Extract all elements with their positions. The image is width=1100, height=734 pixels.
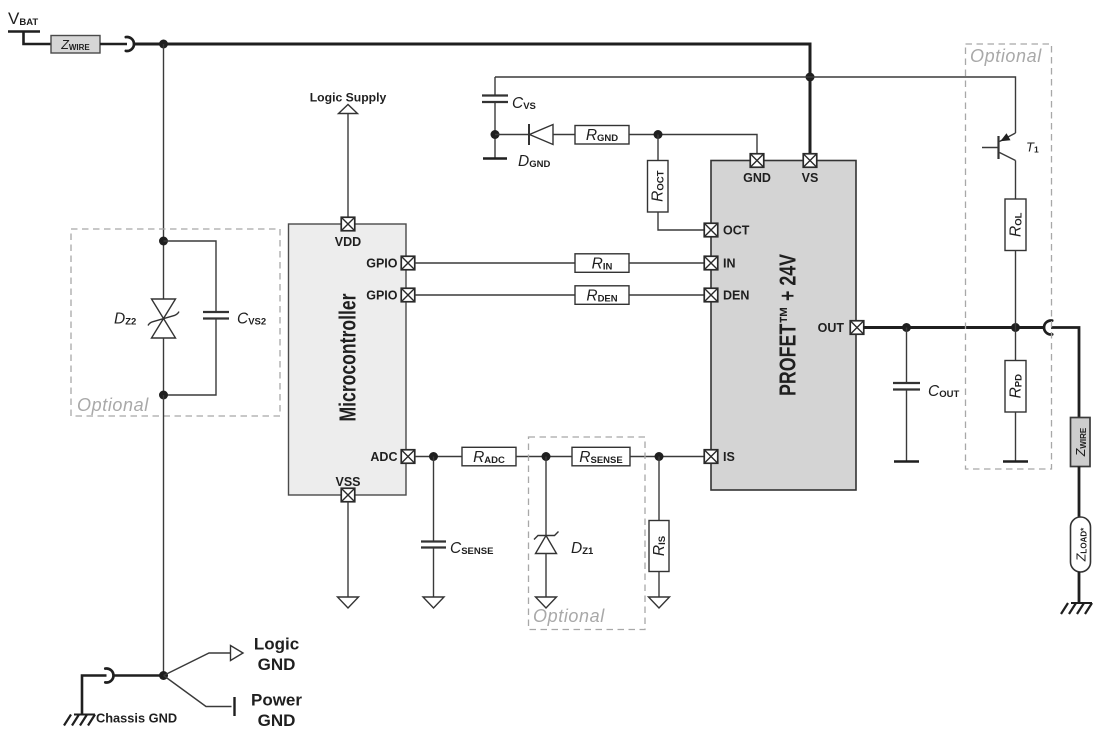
svg-text:Optional: Optional	[970, 46, 1042, 66]
capacitor COUT	[893, 328, 920, 462]
svg-text:ADC: ADC	[370, 450, 397, 464]
svg-text:GPIO: GPIO	[366, 257, 398, 271]
resistor RPD	[1003, 328, 1028, 462]
pin VS	[802, 154, 819, 185]
pin VDD	[335, 217, 361, 249]
wire junction to DGND	[495, 134, 529, 136]
diode DZ1 (zener)	[534, 457, 559, 598]
wire OUT net	[864, 326, 1045, 329]
wire VSS to ground	[347, 502, 349, 598]
wire GPIO1 to RIN	[415, 262, 576, 264]
chassis ground left	[64, 715, 95, 726]
svg-text:PROFET™ + 24V: PROFET™ + 24V	[775, 253, 801, 396]
wire RSENSE to IS pin	[630, 456, 705, 458]
ground DZ1	[536, 597, 557, 608]
microcontroller block	[289, 224, 407, 495]
junction RPD	[1011, 323, 1020, 332]
PROFET block	[711, 161, 856, 491]
pin GND	[743, 154, 771, 185]
resistor RIN	[575, 254, 629, 273]
junction COUT	[902, 323, 911, 332]
battery terminal bar	[8, 30, 40, 33]
pin IN	[704, 256, 735, 270]
wire DZ2 bottom	[163, 338, 165, 395]
wire GPIO2 to RDEN	[415, 294, 576, 296]
wire ROCT to OCT pin	[658, 212, 705, 230]
Power GND terminal bar	[233, 697, 235, 716]
wire VDD to Logic Supply	[347, 114, 349, 218]
label Logic GND	[254, 635, 299, 675]
svg-text:Logic Supply: Logic Supply	[310, 91, 387, 105]
svg-text:GPIO: GPIO	[366, 289, 398, 303]
resistor ZWIRE (input)	[51, 36, 100, 54]
transistor T1 (PNP)	[982, 133, 1016, 161]
svg-text:IN: IN	[723, 257, 736, 271]
label COUT	[928, 383, 959, 400]
connector (ground)	[105, 669, 113, 683]
svg-text:VS: VS	[802, 171, 819, 185]
ground CSENSE	[423, 597, 444, 608]
junction RIS	[655, 452, 664, 461]
optional box DZ1	[529, 437, 646, 630]
wire connector to chassis ground	[82, 676, 107, 715]
connector (input)	[126, 37, 134, 51]
wire RADC to RSENSE	[516, 456, 572, 458]
svg-text:Optional: Optional	[533, 606, 605, 626]
junction CSENSE	[429, 452, 438, 461]
svg-text:OUT: OUT	[818, 321, 845, 335]
wire OUT to ZWIRE	[1051, 328, 1079, 418]
junction ROCT	[654, 130, 663, 139]
junction VS / CVS line	[806, 73, 815, 82]
node VBAT label	[8, 9, 38, 28]
capacitor CVS2	[164, 241, 230, 395]
pin IS	[704, 450, 735, 464]
optional box DZ2	[71, 229, 280, 416]
label DZ2	[114, 311, 136, 328]
wire DGND to RGND	[553, 134, 575, 136]
ground VSS	[338, 597, 359, 608]
ground RIS	[649, 597, 670, 608]
pin VSS	[335, 475, 360, 502]
resistor RIS	[649, 457, 669, 598]
resistor RSENSE	[572, 447, 630, 466]
resistor RADC	[462, 447, 516, 466]
label CVS	[512, 95, 536, 112]
svg-text:GND: GND	[258, 711, 296, 730]
wire ADC to RADC	[415, 456, 463, 458]
connector (output)	[1044, 321, 1052, 335]
wire left branch to ground node	[163, 395, 165, 676]
wire CVS top to VS and T1	[495, 77, 1016, 133]
svg-text:Optional: Optional	[77, 395, 149, 415]
junction DZ2 top	[159, 237, 168, 246]
resistor RGND	[575, 126, 629, 145]
wire ROL to OUT net	[1015, 251, 1017, 328]
pin GPIO 2	[366, 288, 415, 302]
junction DZ2 bottom	[159, 391, 168, 400]
junction CVS/DGND	[491, 130, 500, 139]
svg-text:Microcontroller: Microcontroller	[335, 293, 361, 421]
svg-text:VSS: VSS	[335, 475, 360, 489]
capacitor CVS	[482, 77, 508, 158]
label DZ1	[571, 540, 594, 557]
Logic Supply arrow	[339, 105, 358, 114]
chassis ground right	[1061, 603, 1092, 614]
CVS ground bar	[483, 157, 507, 159]
Logic GND arrow	[231, 646, 244, 661]
resistor RDEN	[575, 286, 629, 305]
resistor ROL	[1005, 199, 1026, 251]
capacitor CSENSE	[421, 457, 446, 598]
label T1	[1026, 140, 1039, 155]
junction DZ1	[542, 452, 551, 461]
pin ADC	[370, 450, 414, 464]
resistor ZWIRE (output)	[1071, 418, 1091, 467]
label DGND	[518, 153, 550, 170]
svg-text:Logic: Logic	[254, 635, 299, 654]
diode DZ2 (bidirectional TVS)	[148, 299, 179, 338]
label Power GND	[251, 691, 302, 731]
pin OUT	[818, 321, 864, 335]
optional box T1	[966, 44, 1052, 469]
wire to Power GND bar	[164, 676, 232, 707]
wire to Logic GND arrow	[164, 653, 231, 676]
svg-text:Chassis GND: Chassis GND	[96, 711, 177, 726]
wire RGND to GND pin	[629, 135, 757, 155]
svg-text:OCT: OCT	[723, 224, 750, 238]
load ZLOAD	[1071, 517, 1091, 572]
label CSENSE	[450, 540, 493, 557]
svg-text:GND: GND	[743, 171, 771, 185]
svg-text:VDD: VDD	[335, 235, 361, 249]
pin OCT	[704, 223, 750, 237]
wire RIN to IN pin	[629, 262, 705, 264]
pin GPIO 1	[366, 256, 415, 270]
wire ZLOAD to chassis ground	[1078, 572, 1081, 603]
wire from VBAT to ZWIRE	[24, 32, 52, 45]
wire junction to ROCT	[657, 135, 659, 161]
junction top rail left	[159, 40, 168, 49]
label CVS2	[237, 311, 266, 328]
wire ground node to connector	[114, 674, 164, 677]
wire T1 to ROL	[1015, 161, 1017, 200]
wire left branch down	[163, 44, 165, 299]
svg-text:IS: IS	[723, 450, 735, 464]
svg-text:DEN: DEN	[723, 289, 749, 303]
diode DGND	[529, 124, 553, 145]
wire top supply rail	[135, 44, 811, 154]
resistor ROCT	[648, 161, 669, 213]
wire ZWIRE to ZLOAD	[1078, 467, 1081, 518]
junction ground node	[159, 671, 168, 680]
svg-text:GND: GND	[258, 655, 296, 674]
svg-text:Power: Power	[251, 691, 302, 710]
pin DEN	[704, 288, 749, 302]
wire RDEN to DEN pin	[629, 294, 705, 296]
wire ZWIRE to connector	[100, 43, 127, 46]
